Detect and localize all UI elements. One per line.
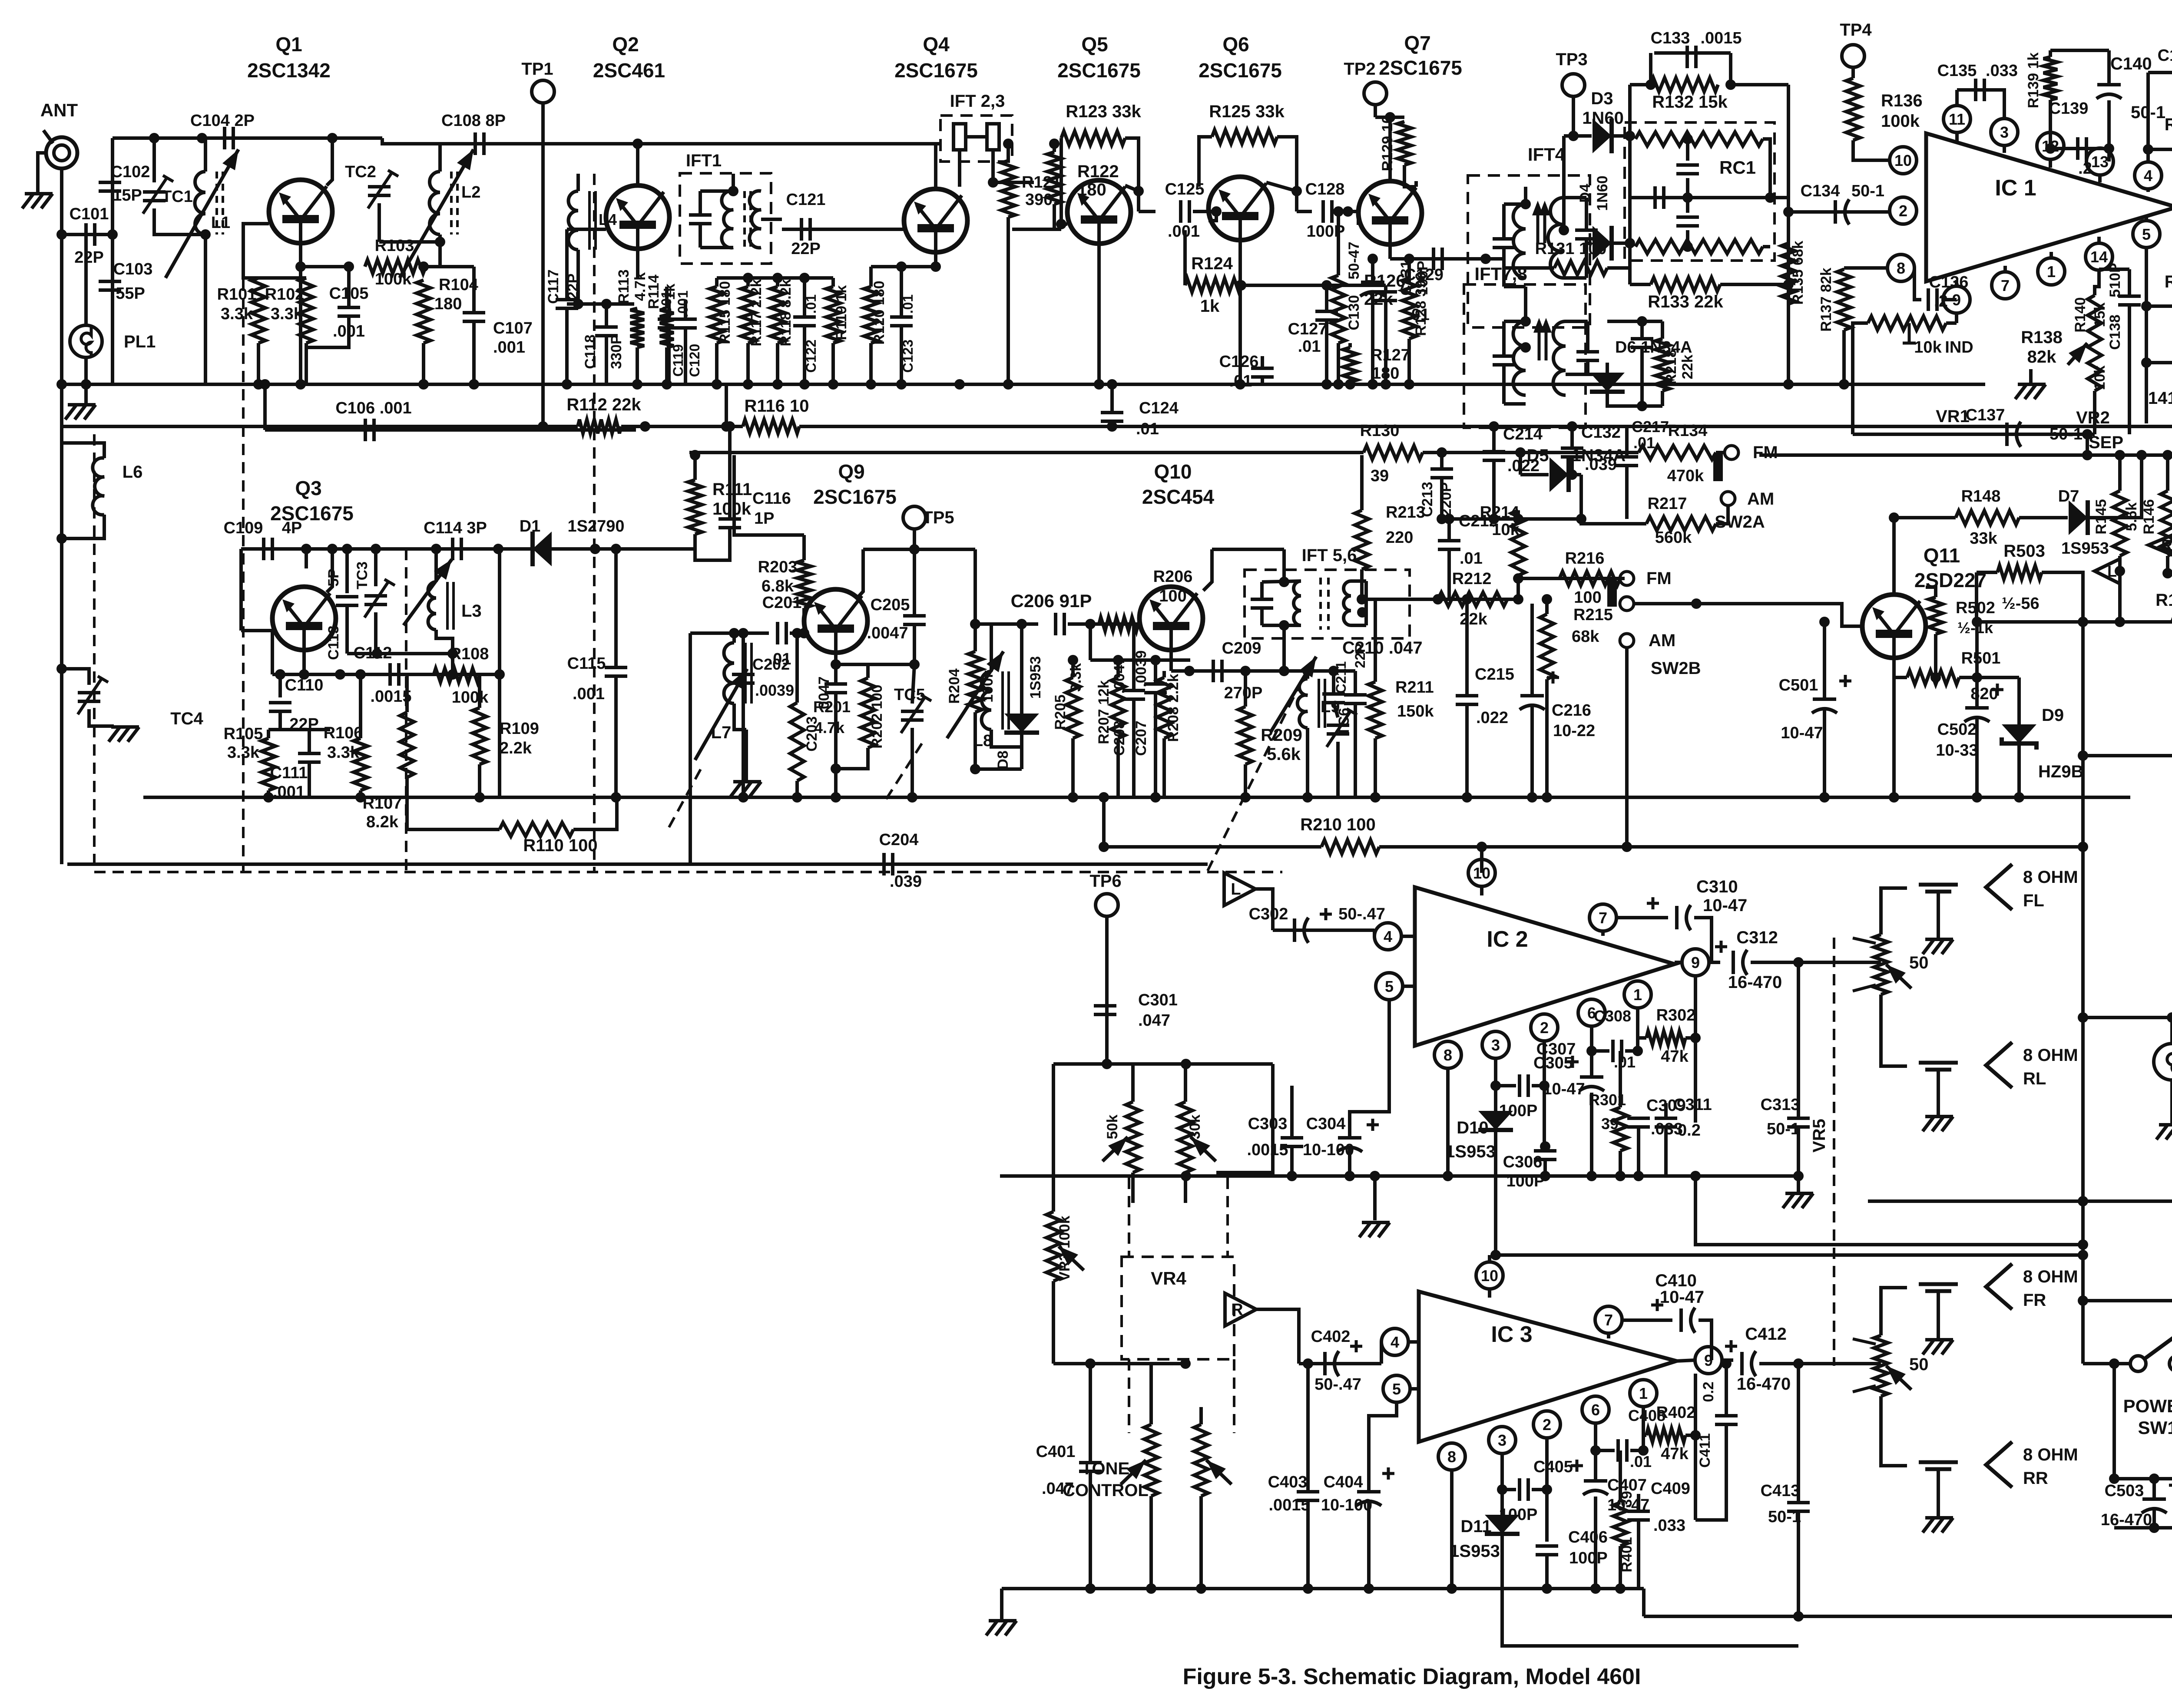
wire pin8 down3: [1450, 1479, 1454, 1589]
wire R503 left drop: [1975, 572, 1978, 622]
resistor R123 33k: [1061, 131, 1125, 145]
wire C129 top: [1384, 285, 1387, 292]
junction: [295, 261, 306, 272]
svg-text:IC 3: IC 3: [1491, 1322, 1532, 1347]
svg-text:IFT1: IFT1: [686, 151, 722, 170]
svg-text:D11: D11: [1460, 1517, 1491, 1536]
wire Q1 collector: [327, 138, 332, 185]
wire R149 row: [1977, 620, 2172, 624]
wire crystals: [966, 135, 987, 139]
resistor R110 100: [500, 823, 573, 836]
wire Q9 base: [790, 631, 804, 635]
capacitor C303 .0015: [1281, 1138, 1303, 1146]
svg-text:2: 2: [1899, 202, 1907, 220]
tuning arrow L1: [166, 149, 238, 278]
svg-text:R212: R212: [1452, 570, 1492, 588]
ground PL3: [2156, 1125, 2172, 1140]
junction: [1328, 666, 1339, 676]
wire TC4 bottom: [89, 709, 114, 726]
svg-text:.001: .001: [675, 291, 691, 317]
junction: [81, 379, 91, 390]
pin7 stem2: [1601, 931, 1605, 936]
capacitor IFT78 cap: [1493, 356, 1515, 365]
svg-text:R107: R107: [363, 794, 402, 813]
svg-text:R124: R124: [1191, 254, 1233, 273]
pin 1 IC1: [2038, 258, 2065, 285]
junction: [2115, 566, 2125, 576]
wire Q1 base: [243, 224, 306, 278]
svg-text:R204: R204: [946, 668, 963, 704]
capacitor C140 50-1: [2096, 85, 2122, 99]
junction: [1490, 1250, 1501, 1260]
junction: [1690, 1033, 1701, 1043]
junction: [725, 421, 735, 432]
resistor R203 6.8k: [797, 560, 811, 608]
junction: [1793, 1611, 1804, 1622]
resistor R302 47k: [1646, 1031, 1685, 1045]
wire R101 bottom: [257, 343, 260, 384]
svg-text:2SC1675: 2SC1675: [813, 486, 897, 508]
junction: [1721, 1358, 1732, 1369]
wire R502 top: [1926, 587, 1936, 597]
capacitor C205 .0047: [903, 616, 926, 624]
svg-text:C120: C120: [687, 344, 702, 377]
junction: [640, 421, 650, 432]
svg-text:L8: L8: [973, 732, 992, 750]
capacitor C?: [1631, 339, 1653, 347]
capacitor C405 100P: [1520, 1478, 1528, 1501]
capacitor C123 .01: [890, 317, 913, 326]
pin 2 IC3: [1533, 1411, 1560, 1438]
wire R126 bot: [1337, 343, 1340, 384]
svg-text:10-47: 10-47: [1543, 1080, 1585, 1098]
junction: [1235, 280, 1245, 291]
resistor R135 68k: [1781, 243, 1795, 304]
switch SW2B AM contact: [1620, 634, 1634, 648]
inductor IFT4 primary: [1513, 204, 1526, 278]
wire ift1 cap bot: [699, 224, 702, 248]
junction: [1576, 514, 1586, 524]
junction: [1540, 1141, 1550, 1152]
resistor R205 3.3k: [1066, 677, 1080, 738]
junction: [1235, 379, 1245, 390]
junction bus A: [866, 379, 876, 390]
pin 9 IC1: [1943, 286, 1970, 313]
IFT4 dashed box: [1468, 175, 1590, 327]
wire B+ vertical: [2081, 572, 2085, 1018]
pin 11 IC1: [1944, 106, 1970, 132]
L arrow: [2095, 559, 2120, 584]
svg-text:R140: R140: [2072, 297, 2089, 332]
wire Q5 collector: [1125, 185, 1139, 191]
svg-text:C137: C137: [1966, 406, 2005, 424]
wire C120 top: [684, 300, 687, 319]
junction: [1181, 1059, 1191, 1069]
junction: [1972, 617, 1982, 627]
svg-text:R127: R127: [1371, 346, 1410, 364]
svg-text:.047: .047: [1138, 1011, 1170, 1030]
resistor R503 1/2-56: [1997, 565, 2042, 579]
junction: [295, 379, 306, 390]
wire C106 row: [265, 426, 634, 430]
junction: [1094, 379, 1104, 390]
svg-text:R120 180: R120 180: [871, 281, 887, 344]
trimmer capacitor TC5: [901, 711, 924, 720]
svg-text:0.2: 0.2: [1678, 1121, 1701, 1140]
wire R125 left: [1199, 137, 1212, 187]
svg-text:Q5: Q5: [1081, 33, 1108, 56]
diode D10 1S953: [1478, 1111, 1513, 1130]
dashed VR4 link1: [1128, 1359, 1130, 1433]
svg-text:R132 15k: R132 15k: [1652, 93, 1728, 112]
junction: [1625, 131, 1635, 141]
svg-text:22k: 22k: [1460, 610, 1487, 628]
svg-text:R142 3.9k: R142 3.9k: [2165, 272, 2172, 291]
junction bus A: [896, 379, 907, 390]
capacitor C117 22P: [556, 300, 578, 308]
junction: [1240, 792, 1251, 803]
capacitor C411 0.2: [1715, 1416, 1738, 1424]
wire R115 bot: [715, 343, 718, 384]
wire osc tank bottom: [347, 652, 453, 655]
junction: [1490, 1080, 1501, 1091]
wire R122 top: [1053, 144, 1056, 152]
resistor R202 100: [861, 678, 875, 748]
capacitor C137 50-1: [2007, 422, 2021, 447]
junction: [2162, 450, 2172, 460]
wire R120 top: [869, 267, 873, 287]
wire L2 top: [438, 144, 442, 172]
pin 6 IC2: [1578, 999, 1605, 1026]
wire ift23 down1: [958, 150, 961, 187]
svg-text:50k: 50k: [1104, 1115, 1121, 1140]
junction: [831, 792, 841, 803]
resistor R214 10k: [1511, 510, 1525, 575]
junction bus A: [1345, 379, 1355, 390]
svg-text:8: 8: [1444, 1046, 1452, 1064]
pilot lamp PL3: [2154, 1044, 2172, 1080]
svg-text:.039: .039: [890, 872, 922, 891]
svg-text:R105: R105: [224, 725, 263, 743]
wire R123 right: [1125, 138, 1139, 211]
wire C143 loop: [2148, 71, 2172, 74]
capacitor C128 100P: [1323, 200, 1332, 223]
junction: [1357, 594, 1367, 605]
IFT7,8 dashed box: [1464, 284, 1586, 428]
transistor Q11: [1862, 595, 1926, 658]
svg-text:VR5: VR5: [1810, 1119, 1829, 1153]
junction: [799, 628, 809, 638]
IFT2,3 crystal 1: [954, 124, 966, 150]
resistor R301 39: [1613, 1107, 1627, 1151]
wire C118 top: [605, 304, 608, 327]
svg-text:9: 9: [1691, 954, 1700, 971]
R arrow: [2149, 534, 2172, 556]
junction: [2149, 1523, 2159, 1533]
wire C116 top: [728, 426, 732, 519]
wire TP6 down: [1105, 916, 1109, 1064]
capacitor C306 100P: [1534, 1151, 1556, 1160]
L input arrow: [1224, 873, 1255, 905]
capacitor C304 10-100: [1337, 1138, 1362, 1152]
junction: [1333, 379, 1344, 390]
svg-text:Q10: Q10: [1154, 460, 1192, 483]
resistor R127 180: [1343, 347, 1357, 382]
svg-text:C202: C202: [752, 655, 790, 673]
wire to RL: [1881, 994, 1907, 1066]
IFT56 core: [1321, 578, 1328, 630]
wire RC1 out: [1770, 198, 1788, 212]
svg-text:2SC1342: 2SC1342: [247, 59, 331, 82]
svg-text:C140: C140: [2110, 54, 2152, 73]
junction: [2115, 450, 2125, 460]
wire Q1 emitter row: [301, 265, 349, 268]
svg-text:R206: R206: [1153, 568, 1193, 586]
svg-text:AM: AM: [1649, 631, 1675, 650]
resistor R501 820: [1907, 671, 1959, 684]
trimmer capacitor TC6: [1327, 725, 1349, 734]
capacitor C110 22P: [269, 703, 291, 711]
wire VR3 column: [1052, 1064, 1055, 1212]
svg-text:R102: R102: [265, 285, 305, 304]
svg-text:R: R: [2161, 536, 2172, 554]
svg-text:47k: 47k: [1661, 1047, 1689, 1066]
pin4 stem3: [1408, 1340, 1419, 1344]
diode D3 1N60: [1593, 119, 1612, 153]
pin 4 IC3: [1381, 1328, 1408, 1355]
capacitor IFT78 cap2: [1576, 352, 1599, 360]
junction: [1691, 598, 1702, 609]
wire bus ground mid: [143, 796, 2130, 799]
svg-text:R207 12k: R207 12k: [1096, 680, 1112, 744]
svg-text:C308: C308: [1594, 1007, 1631, 1025]
svg-text:TONE: TONE: [1082, 1459, 1129, 1478]
svg-text:C108 8P: C108 8P: [441, 112, 506, 130]
svg-text:3.3k: 3.3k: [1068, 663, 1084, 692]
resistor R209 5.6k: [1238, 707, 1252, 764]
capacitor C413 50-1: [1787, 1503, 1810, 1511]
junction: [431, 544, 441, 554]
resistor R204 100k: [968, 651, 982, 712]
capacitor C207 .0039: [1144, 684, 1167, 693]
svg-text:22P: 22P: [791, 240, 821, 258]
wire pin11 up: [1955, 90, 1959, 106]
wire Q9 feed: [734, 455, 804, 535]
svg-text:15k: 15k: [2092, 303, 2108, 327]
wire L3 top: [434, 549, 438, 582]
ground L7: [731, 782, 761, 796]
junction: [2109, 1358, 2119, 1369]
resistor R133 22k: [1651, 278, 1720, 291]
svg-text:150k: 150k: [1397, 702, 1434, 720]
svg-text:Q1: Q1: [275, 33, 302, 56]
svg-text:C106 .001: C106 .001: [335, 399, 411, 417]
capacitor C101 22P: [86, 223, 95, 246]
junction: [1513, 573, 1523, 584]
wire D3 left: [1564, 134, 1592, 138]
wire pin8 down: [1446, 1077, 1450, 1176]
pin1 stem: [2049, 252, 2053, 258]
svg-text:R501: R501: [1961, 649, 2001, 667]
svg-text:50-1: 50-1: [1767, 1120, 1800, 1138]
svg-text:L6: L6: [123, 463, 143, 482]
junction: [1433, 594, 1443, 605]
wire tone row: [1053, 1062, 1273, 1066]
svg-text:14: 14: [2090, 248, 2108, 266]
svg-text:50-.47: 50-.47: [1314, 1375, 1361, 1394]
wire to RR: [1881, 1396, 1907, 1466]
wire RC1 mid: [1630, 196, 1770, 199]
svg-text:TP6: TP6: [1089, 872, 1121, 891]
pin 9 IC2: [1682, 949, 1709, 976]
svg-text:R146: R146: [2141, 499, 2157, 534]
capacitor C312 16-470: [1733, 950, 1747, 975]
resistor R105 3.3k: [262, 738, 275, 790]
svg-text:.001: .001: [573, 685, 605, 703]
svg-text:HZ9B: HZ9B: [2038, 762, 2083, 781]
wire R212 row: [1362, 598, 1518, 601]
diode D1 1S2790: [533, 532, 552, 566]
junction: [1725, 79, 1736, 90]
svg-text:2.2k: 2.2k: [500, 739, 532, 757]
svg-text:.033: .033: [1653, 1516, 1685, 1535]
svg-text:SW1: SW1: [2138, 1417, 2172, 1438]
wire C125 right: [1193, 210, 1216, 213]
junction: [2082, 450, 2093, 460]
wire emitter row: [836, 663, 914, 666]
wire L7 top: [732, 633, 736, 643]
wire bus B seg3: [799, 426, 2172, 455]
pin 2 IC2: [1531, 1014, 1558, 1041]
pin8 stem3: [1450, 1470, 1454, 1479]
capacitor C502 10-33: [1964, 708, 1990, 722]
svg-text:TP5: TP5: [922, 508, 954, 527]
svg-text:D10: D10: [1457, 1118, 1488, 1137]
svg-text:R211: R211: [1395, 678, 1434, 697]
svg-text:8.2k: 8.2k: [366, 813, 399, 831]
svg-text:R134: R134: [1668, 422, 1708, 440]
capacitor C404 10-100: [1356, 1492, 1381, 1506]
svg-text:10-22: 10-22: [1553, 722, 1595, 740]
wire R210 to bus: [1102, 797, 1106, 847]
wire pin10 feed3: [1488, 1255, 1491, 1262]
wire to VR5 pot2: [1759, 1362, 1881, 1365]
wire tone row 2: [1053, 1362, 1185, 1365]
svg-text:C143: C143: [2158, 46, 2172, 65]
junction: [1542, 1583, 1552, 1594]
diode D11 1S953: [1485, 1515, 1520, 1534]
svg-text:CONTROL: CONTROL: [1063, 1481, 1149, 1500]
svg-text:2SC461: 2SC461: [593, 59, 665, 82]
resistor R136 100k: [1846, 78, 1860, 140]
junction: [930, 261, 941, 272]
junction: [1364, 1583, 1374, 1594]
svg-text:R208 2.2k: R208 2.2k: [1165, 674, 1182, 742]
svg-text:C124: C124: [1139, 399, 1179, 417]
capacitor C403 .0015: [1297, 1492, 1319, 1500]
junction: [2078, 750, 2088, 761]
wire R204 feed: [973, 549, 977, 624]
wire C139 row: [2050, 147, 2109, 150]
wire tank bottom: [975, 767, 1022, 771]
capacitor C210 .047: [1322, 694, 1345, 703]
svg-text:C302: C302: [1249, 905, 1288, 923]
junction: [1515, 447, 1526, 458]
resistor R121 390: [1001, 161, 1015, 217]
junction Q5 base: [1056, 219, 1066, 229]
capacitor C111 .001: [298, 753, 321, 762]
wire pin5 to R142: [2145, 248, 2148, 306]
wire ift1 top: [700, 189, 733, 193]
op-amp IC1: [1926, 133, 2172, 281]
ground IC3 left: [986, 1621, 1016, 1635]
wire ift1 cap top: [699, 191, 702, 215]
svg-text:8: 8: [1897, 259, 1905, 277]
svg-text:1: 1: [2047, 263, 2056, 281]
svg-text:.001: .001: [493, 338, 525, 357]
ground IC2 rail: [1359, 1222, 1390, 1237]
capacitor C214 .022: [1483, 452, 1505, 460]
wire C109 left down: [239, 549, 243, 631]
wire D10 down: [1494, 1130, 1497, 1255]
resistor R146 5.6k: [2161, 491, 2172, 556]
junction: [632, 379, 642, 390]
svg-text:R215: R215: [1573, 606, 1613, 624]
ground near IC1: [2015, 384, 2046, 399]
svg-text:3: 3: [2000, 123, 2009, 141]
capacitor C301 .047: [1094, 1006, 1116, 1014]
ground FR: [1923, 1340, 1953, 1355]
svg-text:C502: C502: [1937, 720, 1977, 739]
svg-text:½-56: ½-56: [2002, 595, 2040, 613]
junction bus A: [1321, 379, 1332, 390]
svg-text:FL: FL: [2023, 891, 2044, 910]
wire ift1 feed: [732, 174, 735, 191]
switch SW1 contact1: [2130, 1356, 2146, 1371]
capacitor IFT56 cap: [1251, 599, 1273, 608]
svg-text:3.3k: 3.3k: [327, 743, 360, 762]
junction: [2078, 1239, 2088, 1250]
junction bus A: [772, 379, 783, 390]
pin 9 IC3: [1695, 1347, 1722, 1374]
svg-text:C306: C306: [1503, 1153, 1543, 1171]
wire L arrow down: [1255, 889, 1273, 930]
junction: [1049, 139, 1060, 149]
diode D5 1N34A: [1550, 457, 1569, 492]
IFT2,3 crystal 2: [987, 124, 999, 150]
svg-text:C109: C109: [224, 519, 263, 537]
junction: [1302, 666, 1313, 676]
junction: [1590, 1445, 1601, 1456]
wire C123 top: [900, 267, 903, 317]
svg-text:1: 1: [1633, 986, 1642, 1004]
svg-text:100: 100: [1159, 587, 1186, 605]
wire TC4 top: [62, 669, 89, 685]
capacitor C118 330P: [595, 327, 618, 336]
wire pin8 to C136: [1914, 268, 1921, 300]
capacitor C139 .2: [2078, 137, 2086, 160]
inductor L9: [1298, 679, 1308, 728]
junction: [1404, 254, 1414, 264]
wire R123 left: [1060, 138, 1063, 224]
junction: [2162, 568, 2172, 578]
svg-text:560k: 560k: [1655, 529, 1692, 547]
svg-text:C118: C118: [582, 334, 599, 369]
junction: [1236, 280, 1246, 291]
junction bus A: [799, 379, 810, 390]
svg-text:C205: C205: [871, 596, 910, 614]
capacitor RC1 c1: [1676, 165, 1699, 174]
